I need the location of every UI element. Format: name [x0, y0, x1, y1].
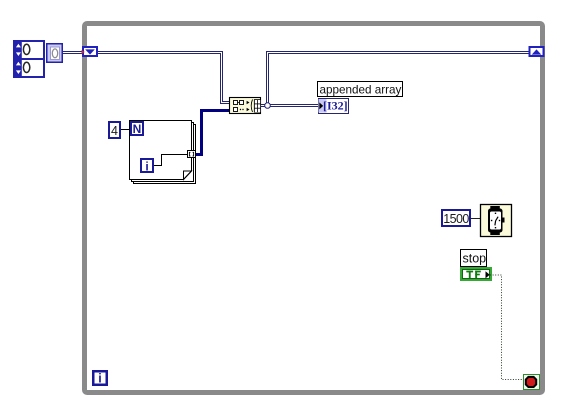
svg-text:i: i	[98, 371, 101, 385]
svg-text:stop: stop	[463, 251, 487, 265]
svg-text:1500: 1500	[443, 212, 469, 226]
svg-text:N: N	[133, 122, 142, 136]
svg-text:appended array: appended array	[320, 83, 402, 96]
svg-text:i: i	[145, 159, 148, 173]
svg-text:[I32]: [I32]	[323, 99, 348, 113]
svg-text:4: 4	[111, 124, 118, 138]
